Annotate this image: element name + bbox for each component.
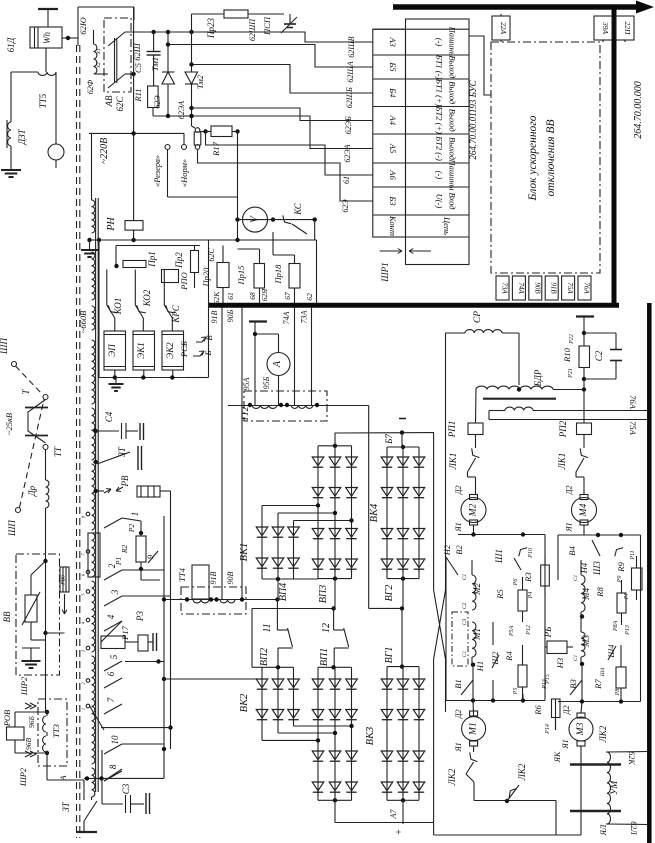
svg-text:Б4: Б4 bbox=[388, 87, 398, 98]
svg-text:Р14: Р14 bbox=[544, 724, 551, 735]
svg-text:7: 7 bbox=[106, 697, 116, 702]
svg-text:(-): (-) bbox=[435, 171, 445, 180]
svg-text:91В: 91В bbox=[550, 282, 558, 294]
svg-text:ШП: ШП bbox=[7, 520, 17, 537]
svg-text:264.70.00.01193 БУС: 264.70.00.01193 БУС bbox=[468, 79, 478, 159]
svg-text:74А: 74А bbox=[517, 282, 525, 294]
svg-text:С3: С3 bbox=[121, 783, 131, 794]
svg-text:Я1: Я1 bbox=[565, 522, 574, 532]
svg-text:ЗТ: ЗТ bbox=[61, 801, 71, 812]
svg-text:91В: 91В bbox=[209, 571, 218, 584]
svg-text:Р2: Р2 bbox=[127, 524, 136, 534]
svg-text:62ЭБ: 62ЭБ bbox=[344, 116, 353, 134]
svg-text:В: В bbox=[204, 335, 214, 340]
svg-text:М3: М3 bbox=[581, 635, 591, 648]
svg-text:Р5: Р5 bbox=[513, 688, 519, 696]
svg-text:А6: А6 bbox=[388, 169, 398, 180]
svg-text:ЯЛ: ЯЛ bbox=[599, 824, 608, 836]
svg-text:ВП2: ВП2 bbox=[259, 648, 270, 666]
svg-text:62К: 62К bbox=[212, 291, 221, 305]
svg-text:6: 6 bbox=[106, 671, 116, 676]
svg-text:90Б: 90Б bbox=[226, 309, 235, 322]
svg-text:ТТ: ТТ bbox=[53, 446, 63, 457]
svg-text:Н1: Н1 bbox=[475, 661, 485, 672]
svg-text:ВК4: ВК4 bbox=[369, 503, 380, 522]
svg-text:ЗТ: ЗТ bbox=[117, 446, 127, 457]
svg-text:10: 10 bbox=[110, 735, 120, 745]
svg-text:В4: В4 bbox=[567, 546, 577, 556]
svg-text:Блок ускоренного: Блок ускоренного bbox=[527, 115, 539, 201]
svg-text:74А: 74А bbox=[282, 311, 291, 324]
svg-text:В2: В2 bbox=[454, 545, 464, 555]
svg-text:Выход: Выход bbox=[448, 81, 458, 105]
svg-text:Б5: Б5 bbox=[388, 61, 398, 71]
svg-text:22А: 22А bbox=[499, 22, 508, 35]
svg-text:Вход: Вход bbox=[448, 192, 458, 210]
svg-text:РН: РН bbox=[106, 217, 117, 232]
svg-text:АВ: АВ bbox=[104, 95, 114, 107]
svg-text:Д2: Д2 bbox=[454, 709, 463, 719]
svg-text:62Ф: 62Ф bbox=[86, 79, 95, 94]
svg-text:96В: 96В bbox=[24, 738, 33, 751]
svg-text:R6: R6 bbox=[533, 705, 543, 716]
svg-text:90В: 90В bbox=[226, 571, 235, 584]
svg-text:62С: 62С bbox=[207, 248, 216, 262]
svg-text:R7: R7 bbox=[593, 679, 603, 690]
svg-text:12: 12 bbox=[321, 623, 332, 633]
svg-text:8: 8 bbox=[108, 764, 118, 769]
svg-text:61: 61 bbox=[226, 292, 235, 300]
svg-text:62Ю: 62Ю bbox=[78, 17, 88, 35]
svg-text:ШР1: ШР1 bbox=[380, 262, 390, 282]
svg-text:ЛК2: ЛК2 bbox=[447, 768, 457, 786]
svg-text:БТ1 (+): БТ1 (+) bbox=[435, 78, 445, 107]
svg-text:Выход: Выход bbox=[448, 109, 458, 133]
svg-text:ЛК1: ЛК1 bbox=[448, 453, 458, 471]
svg-text:Н3: Н3 bbox=[555, 658, 565, 669]
svg-text:А: А bbox=[58, 775, 68, 782]
svg-text:62К: 62К bbox=[627, 751, 636, 765]
svg-text:Р1: Р1 bbox=[114, 557, 123, 566]
svg-text:БТ2 (+): БТ2 (+) bbox=[435, 105, 445, 134]
svg-text:3: 3 bbox=[110, 589, 120, 595]
svg-text:R3: R3 bbox=[523, 572, 533, 582]
svg-text:ТТ3: ТТ3 bbox=[51, 724, 61, 738]
svg-text:М4: М4 bbox=[581, 588, 591, 601]
svg-text:R17: R17 bbox=[211, 141, 221, 156]
svg-text:U(-): U(-) bbox=[435, 194, 445, 209]
svg-text:«Резерв»: «Резерв» bbox=[152, 155, 162, 187]
svg-text:РОВ: РОВ bbox=[2, 710, 12, 727]
svg-text:КО2: КО2 bbox=[142, 289, 152, 307]
svg-text:ПСП: ПСП bbox=[262, 16, 272, 36]
svg-text:Р13: Р13 bbox=[625, 625, 631, 636]
svg-text:Р8А: Р8А bbox=[613, 621, 619, 633]
svg-text:Ш3: Ш3 bbox=[592, 561, 602, 576]
svg-text:Выход: Выход bbox=[448, 137, 458, 161]
svg-text:62ШБ: 62ШБ bbox=[345, 87, 354, 108]
svg-text:СР: СР bbox=[473, 311, 483, 323]
svg-text:ШР2: ШР2 bbox=[18, 767, 28, 787]
svg-text:Д2: Д2 bbox=[454, 485, 463, 495]
svg-text:А7: А7 bbox=[389, 809, 398, 820]
svg-text:БТ2 (-): БТ2 (-) bbox=[435, 135, 445, 161]
svg-text:Б7: Б7 bbox=[384, 434, 394, 445]
svg-text:ЭК1: ЭК1 bbox=[136, 342, 146, 358]
svg-text:ВВ: ВВ bbox=[2, 611, 12, 622]
svg-text:Р6: Р6 bbox=[513, 579, 519, 587]
svg-text:Р10: Р10 bbox=[528, 548, 534, 559]
svg-text:М1: М1 bbox=[472, 628, 482, 641]
svg-text:А: А bbox=[272, 360, 283, 368]
svg-text:РБ: РБ bbox=[543, 626, 553, 638]
svg-text:62Э: 62Э bbox=[153, 95, 162, 109]
svg-text:Пр20: Пр20 bbox=[201, 267, 211, 288]
svg-text:76А: 76А bbox=[583, 282, 591, 294]
svg-text:РП2: РП2 bbox=[558, 420, 568, 438]
svg-text:Р4: Р4 bbox=[527, 592, 534, 600]
svg-text:11: 11 bbox=[262, 623, 273, 632]
svg-text:Пр1: Пр1 bbox=[147, 251, 157, 268]
svg-text:Д2: Д2 bbox=[565, 485, 574, 495]
svg-text:М1: М1 bbox=[469, 722, 479, 736]
svg-text:ЛК1: ЛК1 bbox=[557, 453, 567, 471]
svg-text:62Л: 62Л bbox=[629, 821, 638, 835]
svg-text:ВП3: ВП3 bbox=[318, 585, 329, 603]
svg-text:1: 1 bbox=[81, 708, 86, 710]
svg-text:КО1: КО1 bbox=[113, 298, 123, 316]
svg-text:С5: С5 bbox=[133, 63, 143, 73]
svg-text:ЭП: ЭП bbox=[107, 344, 117, 357]
svg-text:отключения ВВ: отключения ВВ bbox=[545, 120, 557, 197]
svg-text:ТТ5: ТТ5 bbox=[38, 93, 48, 108]
svg-text:х1: х1 bbox=[96, 48, 102, 55]
svg-text:Р21: Р21 bbox=[568, 368, 574, 379]
svg-text:Пр15: Пр15 bbox=[236, 266, 246, 286]
svg-text:«Норм»: «Норм» bbox=[179, 159, 189, 187]
svg-text:95Б: 95Б bbox=[262, 376, 271, 389]
svg-text:73А: 73А bbox=[501, 282, 509, 294]
svg-text:Р12: Р12 bbox=[526, 625, 532, 636]
svg-text:4: 4 bbox=[106, 614, 116, 619]
svg-text:С2: С2 bbox=[594, 350, 604, 361]
svg-text:62ШВ: 62ШВ bbox=[347, 36, 356, 57]
svg-text:РВ: РВ bbox=[120, 475, 130, 487]
svg-text:А4: А4 bbox=[388, 115, 398, 126]
svg-text:Тм2: Тм2 bbox=[195, 74, 205, 89]
svg-text:КС: КС bbox=[293, 202, 303, 216]
svg-text:ВП4: ВП4 bbox=[278, 583, 289, 601]
svg-text:Д2: Д2 bbox=[562, 705, 571, 715]
svg-text:Пр2: Пр2 bbox=[174, 252, 184, 269]
svg-text:73А: 73А bbox=[300, 310, 309, 323]
svg-text:91В: 91В bbox=[210, 310, 219, 323]
svg-text:Ш4: Ш4 bbox=[599, 668, 606, 678]
svg-text:ШР2: ШР2 bbox=[19, 676, 29, 696]
svg-text:61: 61 bbox=[342, 176, 351, 184]
svg-text:М4: М4 bbox=[579, 503, 589, 517]
svg-text:Р5А: Р5А bbox=[509, 626, 515, 638]
svg-text:Р11: Р11 bbox=[630, 550, 636, 560]
svg-text:Выход: Выход bbox=[448, 56, 458, 80]
svg-text:68: 68 bbox=[248, 292, 257, 300]
svg-text:УМ: УМ bbox=[610, 780, 620, 795]
svg-text:Н2: Н2 bbox=[442, 544, 452, 556]
svg-text:ТТ2: ТТ2 bbox=[240, 406, 250, 421]
svg-text:~220В: ~220В bbox=[99, 138, 110, 165]
svg-text:ТТ4: ТТ4 bbox=[177, 567, 187, 581]
svg-text:РВ0: РВ0 bbox=[61, 575, 67, 586]
svg-text:С4: С4 bbox=[104, 411, 114, 422]
svg-text:(-): (-) bbox=[435, 38, 445, 47]
svg-text:Р22: Р22 bbox=[569, 334, 575, 345]
svg-text:Др: Др bbox=[27, 485, 37, 497]
svg-text:М3: М3 bbox=[576, 722, 586, 736]
svg-text:ВГ2: ВГ2 bbox=[384, 585, 395, 602]
svg-text:ВК3: ВК3 bbox=[365, 727, 376, 746]
svg-text:~25кВ: ~25кВ bbox=[4, 413, 14, 435]
svg-text:С1: С1 bbox=[462, 651, 468, 658]
svg-text:С3: С3 bbox=[462, 619, 468, 626]
svg-text:62: 62 bbox=[305, 293, 314, 301]
svg-text:Я1: Я1 bbox=[561, 739, 570, 749]
svg-text:Ш4: Ш4 bbox=[606, 644, 616, 659]
svg-text:М2: М2 bbox=[469, 503, 479, 517]
svg-text:90В: 90В bbox=[533, 282, 541, 294]
svg-text:39А: 39А bbox=[601, 21, 610, 35]
svg-text:С1: С1 bbox=[462, 574, 468, 581]
svg-text:ЛК2: ЛК2 bbox=[517, 763, 527, 781]
svg-text:Ш1: Ш1 bbox=[494, 549, 504, 564]
svg-text:Б: Б bbox=[203, 350, 213, 356]
svg-text:Б3: Б3 bbox=[388, 195, 398, 205]
svg-text:Пашины: Пашины bbox=[448, 158, 458, 190]
svg-text:Р3: Р3 bbox=[135, 611, 145, 622]
svg-text:+: + bbox=[393, 829, 405, 835]
svg-text:Я1: Я1 bbox=[454, 742, 463, 752]
svg-text:62ША: 62ША bbox=[346, 61, 355, 82]
svg-text:РП1: РП1 bbox=[447, 421, 457, 439]
svg-text:В1: В1 bbox=[453, 679, 463, 688]
svg-text:1: 1 bbox=[130, 512, 140, 517]
svg-text:R10: R10 bbox=[562, 347, 572, 362]
svg-text:ВГ1: ВГ1 bbox=[384, 647, 395, 664]
svg-text:Р15: Р15 bbox=[545, 674, 551, 685]
svg-text:Wh: Wh bbox=[42, 32, 52, 44]
svg-text:С1: С1 bbox=[573, 655, 579, 662]
svg-text:КРС: КРС bbox=[171, 304, 181, 323]
svg-text:61Д: 61Д bbox=[6, 36, 16, 52]
svg-text:R4: R4 bbox=[504, 651, 514, 662]
svg-text:ШП: ШП bbox=[0, 338, 9, 355]
svg-text:95А: 95А bbox=[242, 377, 251, 390]
svg-text:БТ1 (-): БТ1 (-) bbox=[435, 54, 445, 80]
svg-text:R8: R8 bbox=[595, 587, 605, 598]
svg-text:Пр23: Пр23 bbox=[206, 18, 216, 39]
svg-text:ЛК2: ЛК2 bbox=[598, 725, 608, 743]
svg-text:75А: 75А bbox=[628, 421, 638, 436]
svg-text:R9: R9 bbox=[616, 562, 626, 573]
svg-text:ВК1: ВК1 bbox=[239, 543, 250, 562]
svg-text:ВП1: ВП1 bbox=[319, 648, 330, 666]
svg-text:Пр18: Пр18 bbox=[273, 264, 283, 285]
svg-text:62С: 62С bbox=[115, 96, 125, 112]
svg-text:5: 5 bbox=[109, 654, 119, 659]
svg-text:А3: А3 bbox=[388, 36, 398, 46]
svg-text:62ЭА: 62ЭА bbox=[343, 144, 352, 162]
svg-text:Пашины: Пашины bbox=[448, 26, 458, 58]
svg-text:РСБ: РСБ bbox=[179, 341, 189, 358]
svg-text:БДР: БДР bbox=[533, 369, 543, 387]
svg-text:С1: С1 bbox=[573, 575, 579, 582]
svg-text:22П: 22П bbox=[623, 22, 632, 36]
svg-text:62ШП: 62ШП bbox=[248, 18, 257, 41]
svg-text:А5: А5 bbox=[388, 143, 398, 153]
svg-text:75А: 75А bbox=[566, 282, 574, 294]
svg-text:РПО: РПО bbox=[179, 272, 189, 290]
svg-text:62Я: 62Я bbox=[260, 288, 269, 302]
svg-text:R11: R11 bbox=[133, 88, 143, 102]
svg-text:Р9: Р9 bbox=[617, 576, 623, 584]
svg-text:76А: 76А bbox=[628, 395, 638, 410]
svg-text:ВК2: ВК2 bbox=[239, 693, 250, 712]
svg-text:ЯК: ЯК bbox=[553, 751, 562, 763]
svg-text:R2: R2 bbox=[120, 545, 129, 555]
svg-text:х2: х2 bbox=[96, 62, 102, 69]
svg-text:67: 67 bbox=[283, 292, 292, 300]
svg-text:Цепь: Цепь bbox=[442, 216, 452, 235]
svg-text:Конт: Конт bbox=[388, 215, 398, 236]
svg-text:Тм1: Тм1 bbox=[150, 57, 160, 71]
svg-text:ЭК2: ЭК2 bbox=[165, 342, 175, 359]
svg-text:С2: С2 bbox=[462, 603, 468, 610]
svg-text:Р8: Р8 bbox=[615, 689, 621, 697]
svg-text:264.70.00.000: 264.70.00.000 bbox=[633, 81, 644, 139]
svg-text:Р17: Р17 bbox=[120, 625, 130, 640]
svg-text:ДЗТ: ДЗТ bbox=[17, 128, 27, 145]
svg-text:R5: R5 bbox=[495, 589, 505, 599]
svg-text:96Б: 96Б bbox=[27, 715, 36, 728]
svg-text:Я1: Я1 bbox=[454, 522, 463, 532]
svg-text:М2: М2 bbox=[472, 583, 482, 596]
